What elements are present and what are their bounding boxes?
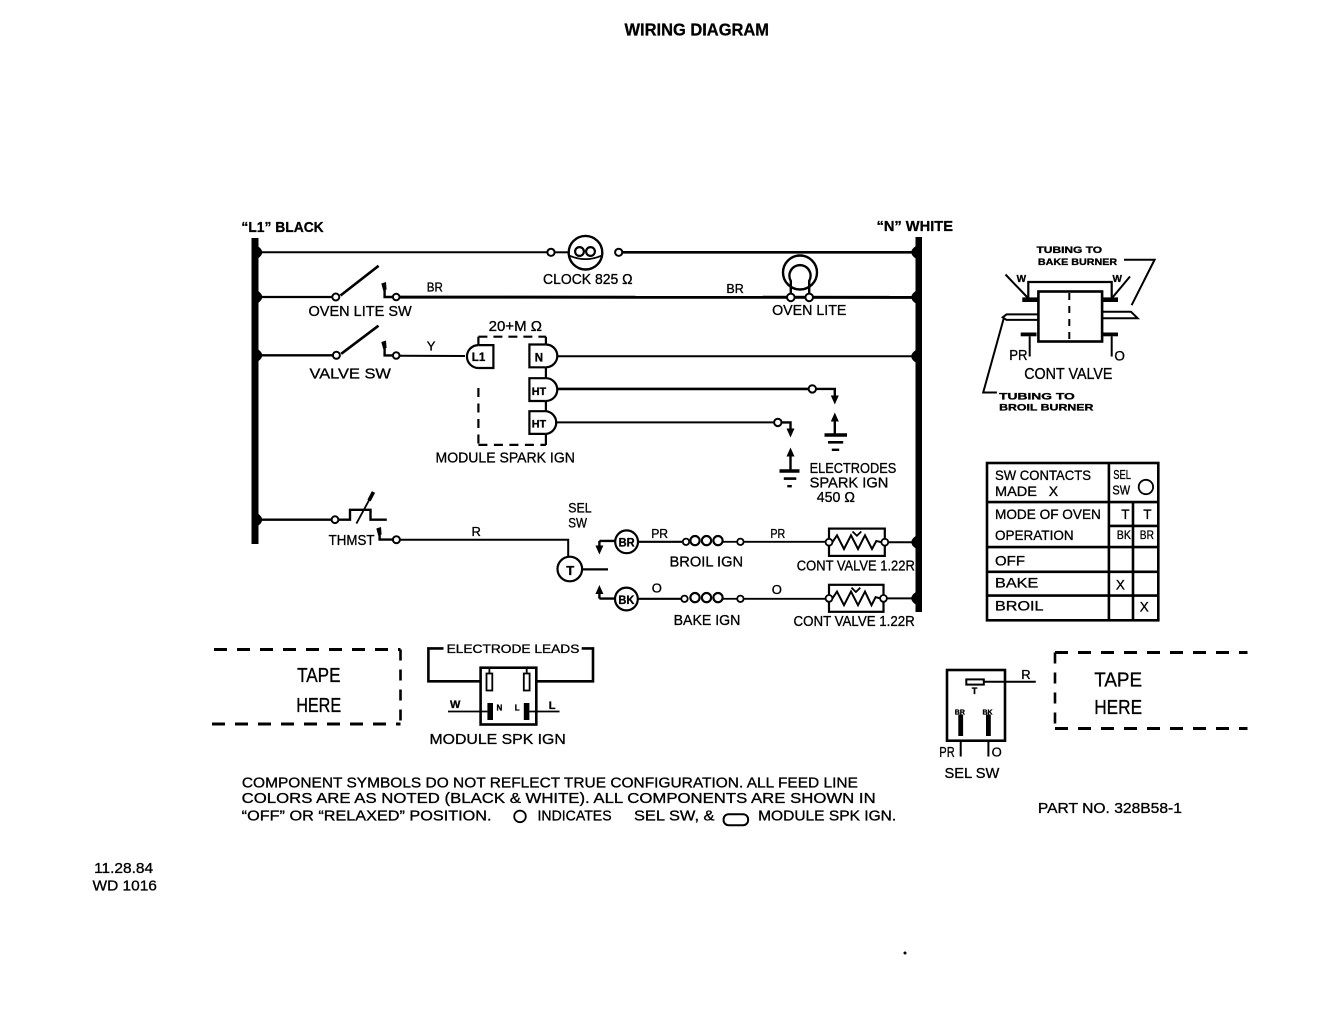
svg-text:CONT VALVE: CONT VALVE [1024,366,1112,383]
svg-text:W: W [450,699,461,711]
junction right bus N row [911,350,915,362]
svg-text:BROIL IGN: BROIL IGN [670,553,744,570]
terminal N (module output) [529,345,546,368]
thermostat THMST arrow [356,497,371,524]
svg-text:T: T [972,686,978,696]
junction right bus bake row [911,592,915,604]
svg-text:BR: BR [619,538,636,550]
svg-text:MADE: MADE [995,483,1037,499]
resistor CONT VALVE 1.22R (broil) [829,529,885,556]
svg-text:SEL SW, &: SEL SW, & [634,808,715,824]
svg-text:W: W [1017,274,1027,285]
wire row2 BR to right bus [400,296,916,299]
cont valve left bottom flange [1021,333,1037,337]
svg-text:TUBING TO: TUBING TO [999,392,1075,403]
svg-text:OPERATION: OPERATION [995,527,1074,543]
svg-text:OVEN LITE SW: OVEN LITE SW [309,303,413,320]
svg-text:HT: HT [532,419,547,431]
svg-text:BR: BR [726,281,743,296]
svg-text:T: T [566,563,574,578]
module top pin left [487,674,493,691]
wire BK to coil [638,598,682,600]
wire N white bus (right vertical feed) [916,237,923,612]
svg-text:“L1” BLACK: “L1” BLACK [241,219,323,236]
svg-text:PR: PR [1009,347,1027,364]
svg-text:“N” WHITE: “N” WHITE [877,218,954,235]
svg-text:HERE: HERE [296,695,341,717]
cont valve body [1038,292,1102,342]
note sel sw circle symbol [514,811,526,823]
terminal BR circle [615,530,638,553]
svg-text:MODULE SPK IGN: MODULE SPK IGN [430,731,566,748]
svg-text:O: O [772,582,782,597]
pointer broil burner [983,319,1004,393]
svg-text:O: O [652,581,662,596]
thmst output contact circle [393,536,400,543]
svg-text:BAKE IGN: BAKE IGN [674,612,741,629]
svg-text:X: X [1116,577,1125,592]
svg-text:SEL SW: SEL SW [945,765,1001,782]
svg-text:R: R [472,524,481,539]
wire T output stub [582,568,608,570]
cont valve PR pin [1029,336,1031,356]
sel sw pin leads [960,741,962,757]
sel sw T slot [966,679,984,684]
speck [904,952,907,955]
electrode2 terminal circle [774,419,781,426]
cont valve right top flange [1102,297,1118,302]
clock right terminal circle [615,249,622,256]
junction left bus row2 [258,291,262,303]
svg-text:Y: Y [427,338,436,353]
cont valve left tube [1003,314,1039,320]
tape here box right (open right) [1055,651,1248,654]
sel sw body box [947,670,1005,741]
svg-text:ELECTRODE LEADS: ELECTRODE LEADS [447,642,580,656]
pointer bake burner [1124,260,1155,306]
electrode2 ground arrow [787,448,795,457]
svg-text:PR: PR [651,526,668,541]
svg-text:INDICATES: INDICATES [538,808,612,824]
svg-text:N: N [535,352,543,364]
sel sw pin BR [958,715,963,737]
terminal HT upper [529,378,546,401]
svg-text:450 Ω: 450 Ω [817,489,855,506]
switch OVEN LITE SW pivot circle [332,294,339,301]
cont valve O pin [1111,336,1113,356]
svg-text:X: X [1049,483,1059,499]
svg-text:CONT VALVE 1.22R: CONT VALVE 1.22R [794,613,915,630]
svg-text:T: T [1121,507,1129,522]
resistor CONT VALVE 1.22R (bake) [829,585,884,612]
svg-text:“OFF” OR “RELAXED” POSITION.: “OFF” OR “RELAXED” POSITION. [242,808,492,824]
ground electrode2 [780,469,800,473]
ground electrode1 [825,433,848,437]
svg-text:MODULE SPARK IGN: MODULE SPARK IGN [436,450,575,467]
pointer W left [1006,275,1028,298]
junction left bus row1 [258,246,262,258]
switch VALVE SW contact circle [393,352,400,359]
cont valve right bottom flange [1102,333,1118,337]
junction right bus row1 [911,246,915,258]
svg-text:TAPE: TAPE [1094,669,1142,691]
wire resistor to bus (bake) [887,597,916,599]
svg-text:X: X [1140,600,1149,615]
module bottom pin N [487,703,493,720]
svg-text:SW: SW [1112,483,1130,497]
svg-text:T: T [1143,507,1151,522]
wire W lead [448,711,487,713]
wire coil to resistor (bake) [744,598,826,600]
table verticals [1108,463,1111,620]
wire resistor to bus (broil) [888,541,915,543]
junction left bus thmst row [258,514,262,526]
terminal BK circle [615,588,638,611]
wire N to right bus [558,355,916,357]
sel sw pin BK [986,715,991,737]
svg-text:OFF: OFF [995,553,1025,569]
table horizontals [987,501,1158,504]
svg-text:SEL: SEL [568,500,592,515]
svg-text:TUBING TO: TUBING TO [1037,245,1103,256]
terminal HT lower [529,411,546,434]
sel sw broil contact arrow [599,540,615,542]
svg-text:BR: BR [955,710,965,717]
svg-text:COMPONENT SYMBOLS DO NOT REFLE: COMPONENT SYMBOLS DO NOT REFLECT TRUE CO… [242,776,858,792]
svg-text:O: O [992,744,1002,759]
electrode1 corner and tip [816,389,835,398]
svg-text:PART NO. 328B58-1: PART NO. 328B58-1 [1038,800,1182,817]
cont valve left top flange [1022,297,1040,302]
svg-text:BR: BR [1140,528,1154,542]
junction right bus row2 [911,291,915,303]
svg-text:SW: SW [568,516,587,531]
switch OVEN LITE SW fixed contact hook [385,284,393,298]
svg-text:BROIL: BROIL [995,598,1044,614]
cont valve right tube [1102,312,1138,318]
svg-text:PR: PR [770,526,785,541]
coil BAKE IGN [681,596,687,602]
wire HT upper [558,388,809,391]
svg-text:L1: L1 [472,352,486,364]
svg-text:HERE: HERE [1094,697,1142,719]
svg-text:WIRING DIAGRAM: WIRING DIAGRAM [625,20,770,40]
wire coil to resistor [744,541,826,543]
module spark ign right connectors [545,337,547,345]
svg-text:N: N [497,704,503,713]
junction right bus broil row [911,536,915,548]
svg-text:OVEN LITE: OVEN LITE [772,302,846,319]
wire clock left stub [555,251,569,253]
svg-text:R: R [1021,667,1030,682]
svg-text:BAKE BURNER: BAKE BURNER [1038,257,1117,268]
svg-text:THMST: THMST [329,532,375,549]
switch VALVE SW pivot circle [333,352,340,359]
lamp OVEN LITE bulb [783,256,817,290]
svg-text:VALVE SW: VALVE SW [310,366,392,383]
svg-text:MODE OF OVEN: MODE OF OVEN [995,506,1101,522]
terminal T circle [558,557,583,582]
wire row1 right segment [622,251,915,254]
svg-text:BR: BR [427,279,443,294]
svg-text:PR: PR [939,744,955,761]
svg-text:BK: BK [1117,528,1131,542]
svg-text:CONT VALVE 1.22R: CONT VALVE 1.22R [797,557,915,574]
note module symbol [724,814,749,825]
sel sw bake contact arrow [599,597,615,599]
switch VALVE SW blade [341,326,378,354]
thermostat THMST body [338,510,386,520]
svg-text:HT: HT [532,386,547,398]
svg-text:WD 1016: WD 1016 [93,878,157,894]
svg-text:BROIL BURNER: BROIL BURNER [999,403,1093,414]
electrode leads right bracket [536,648,593,681]
terminal L1 (module input) [478,345,493,368]
svg-text:BK: BK [618,595,635,607]
lamp OVEN LITE terminal circles [787,294,795,302]
svg-text:L: L [515,704,520,713]
wire R out [984,681,1036,683]
wire L lead [529,711,559,713]
module top pin right [524,674,530,691]
coil BROIL IGN [683,539,689,545]
electrode leads left bracket [428,648,480,681]
wire L1 black bus (left vertical feed) [252,238,259,544]
wire row1 left segment [258,251,548,253]
svg-text:20+M Ω: 20+M Ω [489,318,542,335]
switch OVEN LITE SW blade [341,266,379,296]
electrode2 corner and tip [781,422,790,431]
svg-text:TAPE: TAPE [297,665,340,687]
pointer W right [1112,277,1130,298]
electrode1 ground arrow [831,413,839,422]
tape here box left (open left) [214,648,401,651]
electrode1 terminal circle [809,385,816,392]
table sel sw circle [1139,480,1153,494]
svg-text:11.28.84: 11.28.84 [94,861,153,877]
wire R run to sel sw [400,540,568,557]
wire row3 left stub [258,354,333,356]
thmst output hook [380,529,393,540]
switch OVEN LITE SW contact circle [393,294,400,301]
thermostat THMST pivot circle [332,516,339,523]
svg-text:L: L [549,700,556,712]
table sw contacts outer [987,463,1158,620]
module bottom pin L [524,703,530,720]
svg-text:BAKE: BAKE [995,575,1038,591]
module spark ign dashed box [477,337,479,345]
wire HT lower [555,421,774,423]
svg-text:SW CONTACTS: SW CONTACTS [995,467,1091,483]
switch VALVE SW fixed contact hook [385,342,393,355]
svg-text:CLOCK 825 Ω: CLOCK 825 Ω [543,271,633,288]
wire thmst left stub [258,519,332,521]
svg-text:BK: BK [983,710,993,717]
clock left terminal circle [547,249,554,256]
wire row2 left stub [258,296,332,298]
cont valve top plate [1028,282,1111,298]
svg-text:MODULE SPK IGN.: MODULE SPK IGN. [758,808,896,824]
clock motor CLOCK 825 ohm [569,236,603,270]
wire BR to coil [638,541,683,543]
svg-text:COLORS ARE AS NOTED (BLACK & W: COLORS ARE AS NOTED (BLACK & WHITE). ALL… [242,791,876,807]
svg-text:SEL: SEL [1113,468,1131,482]
module spk ign box [481,668,537,725]
wire row3 Y to module [400,355,466,357]
svg-text:W: W [1113,274,1123,285]
junction left bus row3 [258,349,262,361]
svg-text:O: O [1114,348,1125,363]
